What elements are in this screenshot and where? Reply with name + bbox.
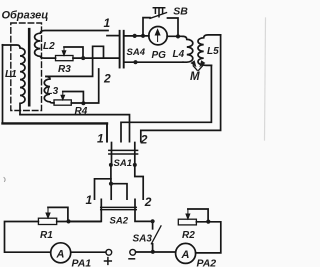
node SA3 top tap bbox=[151, 219, 155, 223]
svg-text:A: A bbox=[181, 249, 190, 261]
SA1 left lead bbox=[111, 143, 113, 165]
node SA3 bottom tap bbox=[151, 250, 155, 254]
svg-text:1: 1 bbox=[97, 132, 104, 146]
node R1 wiper junction bbox=[66, 219, 70, 223]
PG needle arrow bbox=[155, 30, 160, 42]
SB button head bbox=[153, 8, 164, 17]
svg-text:2: 2 bbox=[140, 133, 148, 147]
R2 wiper wire bbox=[188, 209, 208, 220]
ammeter PA2 bbox=[176, 243, 196, 263]
wire L1 top down left side bbox=[2, 45, 4, 123]
core (magnetic circuit) bbox=[28, 29, 31, 105]
svg-text:2: 2 bbox=[144, 195, 152, 209]
wire SA4 right bottom to L4 bbox=[125, 61, 183, 63]
SA2 left lead to R1 wire bbox=[70, 199, 101, 221]
resistor R4 (rheostat) bbox=[54, 100, 71, 105]
inductor L4 bbox=[183, 36, 193, 62]
switch SA4 contact bars bbox=[119, 31, 121, 68]
wire branch to SA2 pin 1 bbox=[95, 179, 111, 199]
R3 wiper wire bbox=[64, 47, 83, 58]
R3 wiper arrow bbox=[62, 47, 66, 55]
minus sign bbox=[129, 258, 135, 260]
R4 wiper arrow bbox=[61, 92, 65, 100]
R4 wiper wire bbox=[63, 92, 84, 103]
svg-text:Образец: Образец bbox=[2, 10, 49, 22]
pushbutton SB contacts bbox=[143, 18, 178, 37]
SA3 pivot stub bbox=[152, 244, 154, 252]
wire R1 left loop to PA1 bbox=[5, 222, 51, 253]
SB lever bbox=[150, 13, 167, 19]
node R4 wiper junction bbox=[81, 101, 85, 105]
switch SA2 knife bars bbox=[101, 206, 137, 208]
SA2 right lead to R2 wire bbox=[135, 199, 152, 221]
SA3 lever bbox=[151, 226, 161, 244]
wire R4 to terminal 2 bbox=[71, 69, 98, 103]
wire R2 right loop to PA2 bbox=[196, 222, 221, 253]
svg-text:SA3: SA3 bbox=[133, 234, 153, 245]
R1 wiper wire bbox=[48, 207, 68, 220]
wire PG to L4 bbox=[167, 35, 183, 37]
svg-text:A: A bbox=[56, 249, 65, 261]
svg-text:L2: L2 bbox=[43, 41, 55, 52]
svg-text:L1: L1 bbox=[5, 69, 17, 80]
terminal minus bbox=[130, 249, 136, 255]
winding L1 bbox=[3, 45, 26, 114]
svg-text:M: M bbox=[190, 71, 200, 83]
wire SA4 to PG bbox=[125, 35, 149, 37]
scan speck artifact bbox=[4, 178, 5, 182]
wire bottom feeder to SA1 pin 1 bbox=[3, 122, 108, 124]
wire R1 to SA2 bbox=[57, 221, 101, 223]
svg-text:SA1: SA1 bbox=[114, 158, 132, 169]
inductor L5 bbox=[198, 35, 221, 66]
terminal plus bbox=[106, 249, 112, 255]
ammeter PA1 bbox=[51, 243, 71, 263]
faint scan streak bbox=[265, 18, 266, 140]
node SA4 right top bbox=[133, 34, 137, 38]
node SB right tap bbox=[176, 34, 180, 38]
plus sign bbox=[105, 258, 112, 265]
wire L1 bottom to SA1 pin 3 bbox=[20, 115, 130, 142]
svg-text:PG: PG bbox=[152, 50, 167, 61]
svg-text:2: 2 bbox=[103, 72, 111, 86]
switch SA1 knife bars bbox=[109, 149, 138, 151]
R2 wiper arrow bbox=[186, 209, 190, 219]
svg-text:L4: L4 bbox=[173, 49, 185, 60]
node R3 wiper junction bbox=[81, 56, 85, 60]
wire L5 top to SA1 pin 4 bbox=[141, 35, 221, 142]
wire L5 bottom to SA1 pin 2 bbox=[121, 65, 211, 141]
svg-text:SA2: SA2 bbox=[110, 216, 129, 227]
svg-text:L3: L3 bbox=[47, 86, 59, 97]
svg-text:R2: R2 bbox=[182, 230, 195, 241]
svg-text:R1: R1 bbox=[40, 230, 53, 241]
wire to SA2 pin 2 bbox=[110, 184, 112, 200]
wire SA1 pin 1 riser bbox=[106, 123, 108, 141]
wire minus terminal to PA2 bbox=[136, 251, 176, 253]
svg-text:SA4: SA4 bbox=[127, 47, 146, 58]
svg-text:1: 1 bbox=[104, 16, 111, 30]
node SA4 right bottom bbox=[133, 60, 137, 64]
galvanometer PG bbox=[149, 27, 167, 45]
node SB left tap bbox=[141, 34, 145, 38]
wire SA1 left down bbox=[110, 165, 112, 184]
svg-text:PA1: PA1 bbox=[72, 258, 92, 267]
svg-text:PA2: PA2 bbox=[197, 258, 217, 267]
svg-text:R3: R3 bbox=[58, 64, 71, 75]
node SA1 left bbox=[109, 163, 113, 167]
svg-text:1: 1 bbox=[86, 193, 93, 207]
resistor R1 (rheostat) bbox=[38, 218, 56, 224]
wire R3 to SA4 lower left bbox=[73, 57, 119, 59]
node SA1-SA2 junction bbox=[109, 182, 113, 186]
node R2 wiper junction bbox=[206, 220, 210, 224]
wire SA1 right to SA2 pin 4 bbox=[135, 165, 143, 199]
svg-text:SB: SB bbox=[173, 6, 188, 18]
winding L2 with wire to terminal 1 bbox=[35, 31, 108, 59]
wire PA1 to plus terminal bbox=[71, 251, 106, 253]
svg-text:R4: R4 bbox=[75, 106, 88, 117]
svg-text:L5: L5 bbox=[207, 46, 219, 57]
R1 wiper arrow bbox=[46, 207, 50, 218]
wire branch to SA2 pin 3 bbox=[111, 184, 127, 200]
wire L3 top riser to SA4 bbox=[46, 46, 104, 76]
resistor R3 (rheostat) bbox=[56, 56, 74, 61]
resistor R2 (rheostat) bbox=[178, 219, 196, 225]
SA1 right lead bbox=[134, 143, 136, 165]
mutual coupling M arrows bbox=[193, 66, 202, 71]
node SA1 right bbox=[133, 163, 137, 167]
sample outline dashed box bbox=[11, 23, 42, 111]
winding L3 bbox=[44, 76, 54, 103]
wire SA4 upper left bbox=[107, 35, 119, 37]
switch SA3 fixed contact bbox=[152, 222, 154, 229]
